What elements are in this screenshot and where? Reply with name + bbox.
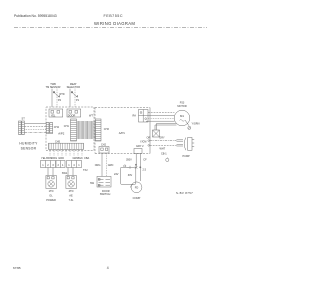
humidity sensor label bbox=[19, 142, 38, 151]
svg-text:WHT: WHT bbox=[160, 148, 166, 151]
svg-text:SW: SW bbox=[90, 182, 95, 185]
svg-text:M1: M1 bbox=[180, 114, 184, 118]
svg-text:SWITCH: SWITCH bbox=[100, 192, 111, 196]
svg-text:24V: 24V bbox=[114, 173, 119, 176]
svg-text:ORG: ORG bbox=[95, 164, 101, 167]
svg-text:SELECTOR: SELECTOR bbox=[67, 86, 81, 89]
wires: to power cord bbox=[150, 140, 177, 142]
svg-text:AE: AE bbox=[69, 194, 73, 198]
wires: humidity sensor to CH4 bbox=[25, 124, 47, 133]
svg-text:POWER: POWER bbox=[46, 198, 56, 202]
ribbon cable to relay board bbox=[77, 121, 96, 139]
wire color labels row bbox=[41, 156, 90, 160]
svg-text:PUMP: PUMP bbox=[183, 155, 191, 158]
svg-text:Publication No. 5995518043: Publication No. 5995518043 bbox=[14, 14, 57, 18]
wires: relay board to fan motor bbox=[146, 112, 174, 121]
wire: meat probe leads bbox=[69, 89, 71, 107]
EOC control board A2 box bbox=[46, 107, 94, 151]
svg-text:1: 1 bbox=[62, 163, 64, 167]
svg-text:A/P2: A/P2 bbox=[58, 132, 65, 136]
ground symbol at fan motor bbox=[185, 120, 191, 129]
svg-text:1TD: 1TD bbox=[49, 189, 54, 193]
wires: to oven lamp 2 bbox=[67, 168, 69, 176]
svg-text:OR: OR bbox=[147, 136, 151, 140]
svg-text:HUMIDITY: HUMIDITY bbox=[19, 142, 38, 146]
svg-text:GRN: GRN bbox=[108, 164, 114, 167]
svg-text:P1: P1 bbox=[76, 99, 80, 102]
sensor: oven temp sensor label bbox=[46, 83, 61, 89]
wires: CH2 to door switch bbox=[101, 153, 103, 176]
lock motor bbox=[131, 182, 142, 193]
junction marks on lock motor wires bbox=[135, 164, 141, 168]
svg-text:RA: RA bbox=[133, 115, 137, 118]
svg-text:CH4: CH4 bbox=[54, 125, 60, 129]
door lock box bbox=[121, 167, 136, 184]
svg-text:Y/CM: Y/CM bbox=[140, 140, 146, 144]
svg-text:GRY: GRY bbox=[159, 136, 165, 139]
svg-text:3: 3 bbox=[52, 163, 54, 167]
svg-text:COMP: COMP bbox=[133, 196, 141, 200]
svg-text:CH3: CH3 bbox=[104, 128, 110, 131]
svg-text:TX2: TX2 bbox=[83, 169, 88, 172]
svg-text:OL: OL bbox=[49, 194, 53, 198]
svg-text:TM SENSOR: TM SENSOR bbox=[46, 86, 61, 89]
connector CH6 on relay board bottom bbox=[134, 149, 142, 154]
connector CH3 vertical strip bbox=[96, 119, 102, 141]
svg-text:CF: CF bbox=[143, 158, 147, 161]
connector J2 pin row bbox=[56, 161, 65, 168]
wire labels near CH6 bbox=[136, 136, 150, 148]
connector CH4 on left edge bbox=[46, 123, 52, 134]
svg-text:FD: FD bbox=[135, 186, 139, 190]
fan motor label bbox=[177, 102, 186, 108]
oven temp sensor probe symbol bbox=[53, 91, 60, 97]
svg-text:2: 2 bbox=[47, 163, 49, 167]
svg-text:1: 1 bbox=[42, 163, 44, 167]
svg-text:MOTOR: MOTOR bbox=[177, 105, 186, 108]
oven lamp 2 bbox=[66, 176, 77, 189]
ground strap double wire bbox=[155, 123, 177, 130]
svg-text:RTD: RTD bbox=[60, 93, 65, 96]
meat probe symbol bbox=[71, 91, 78, 97]
svg-text:1: 1 bbox=[68, 163, 70, 167]
svg-text:4TD: 4TD bbox=[69, 189, 74, 193]
svg-text:P2: P2 bbox=[58, 99, 62, 102]
svg-text:4: 4 bbox=[73, 163, 75, 167]
svg-text:4: 4 bbox=[107, 266, 109, 270]
inline fuse on box top edge bbox=[124, 165, 130, 169]
svg-text:SENSOR: SENSOR bbox=[21, 147, 37, 151]
connector J1 pin row bbox=[41, 161, 56, 168]
svg-text:1: 1 bbox=[78, 163, 80, 167]
svg-text:FEB755C: FEB755C bbox=[104, 14, 124, 18]
wire: temp sensor leads bbox=[51, 89, 53, 107]
svg-text:CBA: CBA bbox=[84, 156, 90, 160]
svg-text:2.5: 2.5 bbox=[143, 168, 147, 171]
svg-text:A/P1: A/P1 bbox=[119, 131, 126, 135]
svg-text:CH1: CH1 bbox=[64, 125, 70, 128]
svg-text:CB-1: CB-1 bbox=[161, 152, 167, 155]
power cord disconnect plug bbox=[177, 138, 195, 151]
connector P10 bbox=[67, 109, 81, 117]
svg-text:2: 2 bbox=[58, 163, 60, 167]
svg-text:SW1: SW1 bbox=[62, 172, 68, 175]
sensor: meat probe selector label bbox=[67, 83, 81, 89]
svg-text:7.3L: 7.3L bbox=[69, 198, 75, 202]
relay board A1 dashed box bbox=[95, 107, 150, 109]
wire drops below CH5 bbox=[50, 150, 82, 157]
svg-text:30V: 30V bbox=[128, 174, 133, 177]
svg-text:YEL: YEL bbox=[51, 115, 56, 118]
svg-text:ST: ST bbox=[22, 116, 26, 120]
header dash-dot separator line bbox=[14, 27, 207, 29]
chassis ground box bbox=[153, 130, 160, 137]
svg-text:67XB: 67XB bbox=[13, 266, 21, 270]
svg-text:GRY 2: GRY 2 bbox=[136, 144, 144, 148]
svg-text:ORG: ORG bbox=[51, 156, 57, 160]
svg-text:DOOR: DOOR bbox=[68, 115, 76, 118]
oven lamp 1 bbox=[46, 176, 57, 189]
svg-text:Y/GRN: Y/GRN bbox=[192, 123, 200, 126]
svg-text:350V: 350V bbox=[126, 159, 132, 162]
wires: to oven lamp 1 bbox=[47, 168, 49, 176]
svg-text:WT: WT bbox=[89, 115, 93, 118]
svg-text:WIRING DIAGRAM: WIRING DIAGRAM bbox=[94, 21, 135, 26]
connector P5 bbox=[49, 109, 63, 117]
fan motor M1 bbox=[174, 110, 190, 126]
svg-text:GRD: GRD bbox=[58, 156, 64, 160]
svg-text:S-BV 8757: S-BV 8757 bbox=[176, 191, 193, 195]
wires: to lock motor bbox=[135, 154, 137, 168]
svg-text:BLK: BLK bbox=[78, 156, 83, 160]
connector J3 pin row bbox=[67, 161, 82, 168]
